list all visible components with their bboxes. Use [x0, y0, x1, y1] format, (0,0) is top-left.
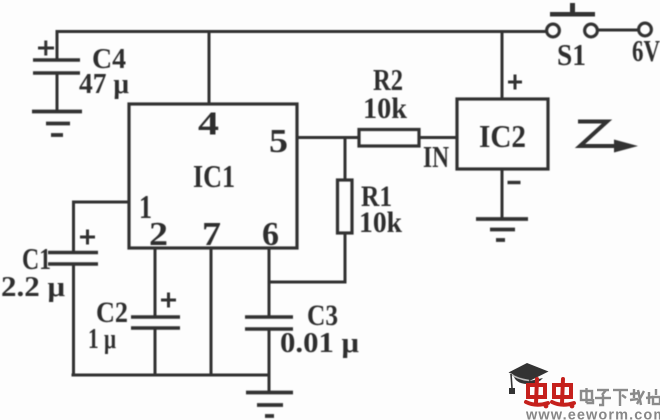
wire bottom rail [72, 374, 270, 377]
wire IC1 pin4 to rail [208, 32, 211, 105]
svg-text:www.eeworm.com: www.eeworm.com [525, 408, 660, 420]
C1 plus polarity mark [80, 230, 95, 245]
wire node junction to R1 [344, 138, 347, 181]
wire R1 bottom [269, 233, 345, 282]
wire rail to ground stub [268, 375, 271, 391]
svg-text:5: 5 [269, 123, 288, 160]
C2 plus polarity mark [161, 293, 176, 308]
svg-text:7: 7 [202, 216, 221, 253]
wire R2 to IC2 IN [419, 136, 457, 139]
svg-text:10k: 10k [359, 206, 402, 239]
wire IC1 pin7 down [210, 248, 213, 375]
op-amp IC1 box [129, 104, 297, 248]
wire IC2 plus to rail [501, 32, 504, 100]
svg-text:6: 6 [262, 216, 279, 253]
ground below C3 [246, 393, 293, 417]
svg-text:6V: 6V [632, 33, 660, 68]
svg-text:IN: IN [423, 139, 449, 174]
wire IC1 pin2 down [154, 248, 157, 317]
wire S1 to 6V terminal [598, 29, 638, 32]
capacitor C4 [33, 60, 80, 73]
wire IC2 to ground [501, 169, 504, 218]
C4 plus polarity mark [38, 41, 54, 56]
IC2 plus polarity mark [508, 75, 522, 90]
ground below C4 [32, 112, 82, 136]
svg-text:IC2: IC2 [479, 118, 526, 154]
svg-text:0.01 μ: 0.01 μ [280, 328, 359, 359]
svg-text:47 μ: 47 μ [79, 69, 129, 100]
switch S1 [547, 3, 652, 37]
resistor R2 [359, 130, 419, 147]
watermark chongchong characters [526, 379, 574, 408]
svg-text:2: 2 [149, 216, 168, 253]
watermark logo graduation cap [509, 363, 549, 394]
svg-text:10k: 10k [363, 92, 407, 125]
svg-text:S1: S1 [557, 37, 586, 72]
op-amp IC2 box [457, 99, 548, 169]
node Z output symbol [578, 122, 638, 153]
capacitor C3 [245, 317, 293, 329]
wire C3 to bottom rail [268, 329, 271, 375]
svg-text:4: 4 [198, 106, 219, 143]
wire IC1 pin5 out [297, 136, 359, 139]
svg-text:IC1: IC1 [193, 158, 235, 194]
wire C4 branch drop [56, 30, 59, 59]
svg-text:C1: C1 [22, 241, 51, 276]
capacitor C1 [48, 253, 98, 265]
watermark chinese site name [581, 388, 660, 406]
wire C2 to bottom rail [154, 328, 157, 375]
wire IC1 pin1 out [74, 202, 130, 252]
svg-text:1 μ: 1 μ [88, 324, 116, 355]
svg-text:2.2 μ: 2.2 μ [1, 272, 65, 303]
resistor R1 [338, 180, 353, 233]
wire C4 to ground [56, 73, 59, 110]
wire C1 to bottom rail [72, 264, 75, 375]
wire top supply rail [57, 30, 546, 33]
ground below IC2 [476, 219, 528, 240]
IC2 minus polarity mark [508, 181, 521, 184]
wire IC1 pin6 down [268, 248, 271, 317]
capacitor C2 [131, 317, 180, 328]
